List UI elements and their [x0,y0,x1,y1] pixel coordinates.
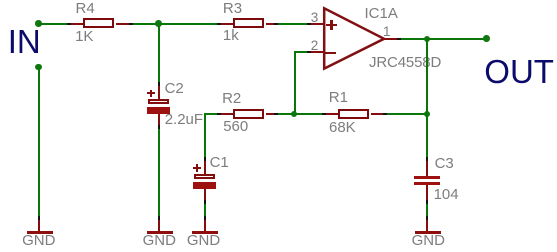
pin lead R2 left [221,113,234,115]
wire junction A to R3 [159,23,217,25]
wire end dot OUT [483,35,490,42]
wire junction C down to junction D [426,39,428,114]
wire C1 to GND3 [204,204,206,216]
wire junction C to OUT [427,38,487,40]
opamp plus symbol [326,24,337,26]
pin endpoint tick opamp pin2 [307,51,311,53]
pin endpoint tick C3 pin2 [426,200,428,204]
node IN (net label) [8,25,41,58]
resistor R4 [83,18,114,28]
wire junction A down to C2 [158,24,160,83]
pin lead GND4 [426,220,428,231]
pin lead R1 left [326,113,339,115]
pin endpoint tick R2 pin1 [217,113,221,115]
value 104 [434,187,459,202]
wire R2 corner to C1 [204,113,206,157]
pin number 3 [311,11,319,25]
wire IN vertical stub top dot [35,64,42,71]
ground GND4 bar [415,231,441,234]
capacitor C2 (polarized) top plate [148,99,169,104]
capacitor C3 top plate [414,176,440,180]
pin endpoint tick opamp pin1 [397,38,401,40]
value 1k [223,28,239,43]
pin lead R4 left [71,23,84,25]
junction A dot [155,20,162,27]
pin lead R1 right [371,113,384,115]
wire R2 left horizontal [204,113,217,115]
wire junction D down to C3 [426,114,428,157]
wire R2 to junction B [278,113,295,115]
pin lead opamp pin3 [311,23,325,25]
pin endpoint tick R1 pin2 [383,113,387,115]
wire IN to R4 [39,23,67,25]
label GND4 [412,233,445,248]
wire R4 to junction A [133,23,159,25]
value 1K [75,29,93,44]
label R3 [223,1,242,16]
label C2 [165,81,184,96]
pin endpoint tick C2 minus [158,125,160,129]
pin endpoint tick GND1 [38,216,40,220]
wire junction B to R1 [295,113,322,115]
pin lead C2 bottom [158,114,160,125]
pin endpoint tick opamp pin3 [307,23,311,25]
label R1 [329,90,348,105]
label R4 [76,1,95,16]
label GND3 [187,233,220,248]
pin lead C1 bottom [204,189,206,200]
value 68K [329,120,356,135]
pin lead R3 right [266,23,275,25]
pin endpoint tick R3 pin1 [217,23,221,25]
wire IN vertical to GND [38,67,40,216]
pin lead GND3 [204,220,206,231]
capacitor C1 bottom plate [193,182,217,189]
pin lead C1 top [204,161,206,174]
wire C2 to GND2 [158,129,160,216]
pin endpoint tick C3 pin1 [426,157,428,161]
pin endpoint tick R4 pin2 [129,23,133,25]
pin lead C3 top [426,161,428,176]
pin endpoint tick GND2 [158,216,160,220]
capacitor C2 bottom plate [147,107,171,114]
pin lead R4 right [116,23,129,25]
C2 plus sign [147,92,155,94]
pin number 2 [311,39,319,53]
resistor R1 [338,109,369,119]
node OUT (net label) [484,55,554,88]
pin lead C3 bottom [426,185,428,200]
capacitor C3 bottom plate [414,182,440,186]
value JRC4558D [369,55,441,70]
ground GND2 bar [147,231,173,234]
pin lead opamp pin1 output [384,38,397,40]
pin endpoint tick GND4 [426,216,428,220]
ground GND1 bar [27,231,53,234]
C1 plus sign [193,167,201,169]
pin lead opamp pin2 [311,51,325,53]
pin lead C2 top [158,86,160,99]
pin number 1 [383,25,391,39]
pin lead R2 right [266,113,275,115]
wire C3 to GND4 [426,204,428,216]
opamp minus symbol [325,52,336,54]
capacitor C1 (polarized) top plate [194,174,215,179]
wire R1 to junction D [387,113,427,115]
pin endpoint tick R2 pin2 [274,113,278,115]
wire R3 to opamp pin3 [278,23,307,25]
pin endpoint tick R1 pin1 [322,113,326,115]
resistor R3 [233,18,264,28]
wire pin2 horizontal [294,51,307,53]
resistor R2 [233,109,264,119]
pin endpoint tick C2 plus [158,82,160,86]
ground GND3 bar [192,231,218,234]
label C3 [435,156,454,171]
junction dot IN top [35,20,42,27]
pin endpoint tick R3 pin2 [274,23,278,25]
label R2 [222,91,241,106]
pin endpoint tick C1 bottom [204,200,206,204]
pin lead GND1 [38,220,40,231]
junction B dot [291,111,298,118]
pin lead GND2 [158,220,160,231]
pin lead R3 left [221,23,234,25]
label IC1A [365,6,398,21]
wire pin2 vertical to node B [294,51,296,114]
wire pin1 to junction C [401,38,427,40]
value 2.2uF [165,112,203,127]
pin endpoint tick R4 pin1 [67,23,71,25]
label GND1 [22,233,55,248]
value 560 [223,119,248,134]
label C1 [210,155,229,170]
pin lead C1 top tick [204,157,206,161]
pin endpoint tick GND3 [204,216,206,220]
label GND2 [143,233,176,248]
junction C dot [424,36,431,43]
junction D dot [424,111,431,118]
